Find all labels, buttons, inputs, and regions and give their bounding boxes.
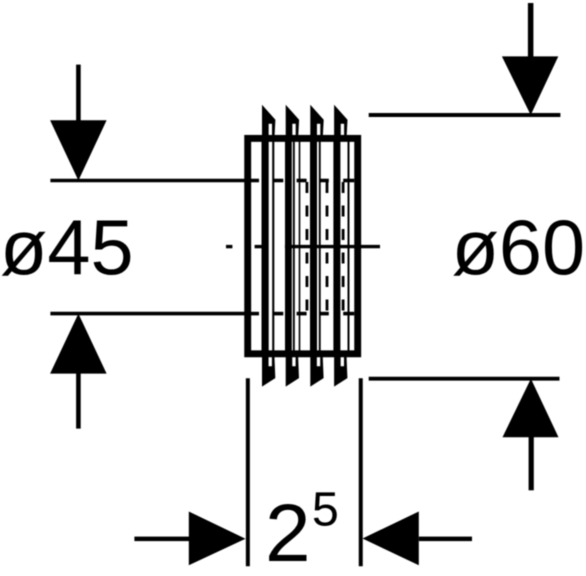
- fin F3 bottom blade: [310, 355, 323, 386]
- ø60 upper extension line: [369, 113, 561, 117]
- fin F2 top blade: [286, 105, 299, 137]
- dimension arrow up-left (ø45 bottom): [50, 314, 107, 429]
- horizontal center line: [226, 245, 380, 248]
- fin F1 top blade: [262, 105, 275, 137]
- fin F4 top blade: [334, 105, 347, 137]
- fin F3 wall lines inside body: [310, 138, 317, 354]
- hidden bore edge dashes at upper ø45 level: [247, 179, 355, 183]
- hidden edge dashed vertical 3: [342, 182, 345, 312]
- dimension arrow down-right (ø60 top): [502, 3, 558, 115]
- hidden edge dashed vertical 1: [306, 182, 309, 312]
- fin F4 wall lines inside body: [333, 138, 340, 354]
- fin F4 bottom blade: [334, 355, 347, 386]
- svg-text:ø60: ø60: [452, 205, 586, 291]
- hidden bore edge dashes at lower ø45 level: [247, 312, 355, 316]
- ø45 upper extension line: [50, 179, 246, 183]
- dimension arrow right (2.5 left): [134, 512, 245, 566]
- dimension arrow left (2.5 right): [363, 512, 473, 566]
- fin F2 bottom blade: [286, 355, 299, 386]
- fin F3 top blade: [310, 105, 323, 137]
- dimension arrow up-right (ø60 bottom): [503, 379, 559, 491]
- svg-text:ø45: ø45: [0, 205, 134, 291]
- ø60 lower extension line: [369, 377, 560, 381]
- svg-text:2: 2: [265, 488, 311, 576]
- 2.5 dim right extension line: [359, 378, 363, 566]
- dimension arrow down-left (ø45 top): [50, 65, 107, 181]
- fin F1 bottom blade: [262, 355, 275, 386]
- hidden edge dashed vertical 2: [326, 182, 329, 312]
- svg-text:5: 5: [312, 483, 339, 537]
- fin F1 wall lines inside body: [262, 138, 269, 354]
- ø45 lower extension line: [50, 312, 246, 316]
- body outline: [248, 138, 358, 353]
- fin F2 wall lines inside body: [285, 138, 292, 354]
- inner shoulder edge line: [299, 138, 301, 354]
- 2.5 dim left extension line: [246, 378, 250, 566]
